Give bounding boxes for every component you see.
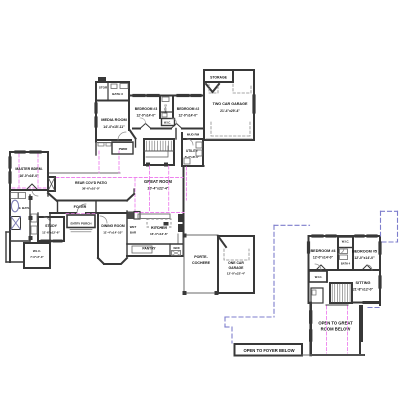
svg-text:BEDROOM #2: BEDROOM #2 — [177, 107, 200, 111]
svg-text:12'-0"x14'-0": 12'-0"x14'-0" — [354, 256, 375, 260]
svg-text:W.I.C.: W.I.C. — [315, 275, 323, 279]
svg-text:16'-0"x13'-6": 16'-0"x13'-6" — [150, 232, 169, 236]
svg-text:14'-4"x15'-11": 14'-4"x15'-11" — [103, 125, 125, 129]
svg-text:FOYER: FOYER — [74, 205, 87, 209]
svg-text:STUDY: STUDY — [45, 224, 58, 228]
svg-text:OPEN TO FOYER BELOW: OPEN TO FOYER BELOW — [243, 348, 294, 353]
svg-text:PANTRY: PANTRY — [142, 247, 156, 251]
svg-text:STOR: STOR — [99, 86, 108, 90]
svg-text:36'-6"x10'-0": 36'-6"x10'-0" — [82, 187, 101, 191]
svg-text:12'-0"x14'-0": 12'-0"x14'-0" — [178, 114, 198, 118]
svg-text:20'-4"x22'-4": 20'-4"x22'-4" — [148, 187, 169, 191]
svg-text:16'-0"x16'-0": 16'-0"x16'-0" — [19, 174, 39, 178]
svg-text:MAID: MAID — [173, 247, 179, 250]
svg-text:21'-4"x29'-4": 21'-4"x29'-4" — [220, 109, 240, 113]
svg-text:12'-0"x14'-0": 12'-0"x14'-0" — [313, 256, 334, 260]
svg-text:COCHERE: COCHERE — [192, 261, 211, 265]
svg-text:MASTER BDRM.: MASTER BDRM. — [15, 167, 42, 171]
svg-text:ENTRY PORCH: ENTRY PORCH — [71, 222, 92, 226]
svg-text:W.I.C.: W.I.C. — [342, 240, 350, 244]
svg-text:11'-6"x12'-6": 11'-6"x12'-6" — [42, 231, 60, 235]
svg-text:12'-0"x22'-4": 12'-0"x22'-4" — [227, 272, 246, 276]
svg-text:ONE CAR: ONE CAR — [228, 261, 244, 265]
svg-text:11'-4"x14'-10": 11'-4"x14'-10" — [103, 231, 123, 235]
svg-text:REAR COV'D PATIO: REAR COV'D PATIO — [75, 181, 107, 185]
svg-text:SITTING: SITTING — [356, 281, 371, 285]
svg-text:MEDIA ROOM: MEDIA ROOM — [101, 117, 127, 122]
svg-text:W.I.C.: W.I.C. — [164, 121, 171, 125]
svg-text:MUD RM: MUD RM — [187, 133, 200, 137]
svg-text:BATH 2: BATH 2 — [164, 104, 168, 114]
svg-text:7'-0"x7'-0": 7'-0"x7'-0" — [30, 255, 44, 259]
svg-text:KITCHEN: KITCHEN — [151, 226, 167, 230]
svg-text:PORTE-: PORTE- — [194, 255, 208, 259]
svg-text:DINING ROOM: DINING ROOM — [101, 224, 125, 228]
svg-text:BATH 3: BATH 3 — [112, 92, 123, 96]
svg-text:GARAGE: GARAGE — [229, 266, 245, 270]
svg-text:BAR: BAR — [130, 231, 137, 235]
svg-text:12'-0"x14'-0": 12'-0"x14'-0" — [136, 114, 156, 118]
svg-text:BATH 4: BATH 4 — [341, 262, 351, 266]
svg-text:M. BATH: M. BATH — [18, 206, 30, 210]
svg-text:BEDROOM #3: BEDROOM #3 — [135, 107, 158, 111]
svg-text:BEDROOM #4: BEDROOM #4 — [310, 249, 336, 253]
svg-text:STORAGE: STORAGE — [210, 76, 227, 80]
svg-text:ROOM BELOW: ROOM BELOW — [321, 327, 351, 332]
svg-text:PWDR: PWDR — [119, 147, 128, 151]
svg-text:TWO CAR GARAGE: TWO CAR GARAGE — [213, 102, 248, 106]
svg-text:21'-8"x12'-0": 21'-8"x12'-0" — [353, 288, 374, 292]
svg-text:BEDROOM #5: BEDROOM #5 — [352, 250, 377, 254]
svg-text:W.I.C.: W.I.C. — [33, 249, 41, 253]
svg-text:WET: WET — [130, 225, 137, 229]
